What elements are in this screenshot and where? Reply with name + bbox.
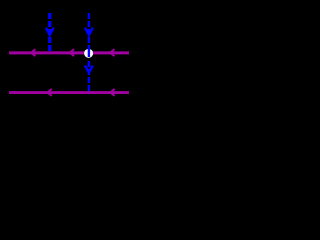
- wire: blue dash crossing the white node: [88, 45, 90, 57]
- node: white circle bus node: [84, 49, 93, 58]
- wire: blue dashed feeder (upper segment) at x=88.9: [88, 13, 90, 43]
- arrow on upper bus (right): [110, 49, 114, 56]
- arrow on upper bus (left): [31, 49, 35, 56]
- wire: upper purple bus line: [9, 51, 129, 54]
- arrow on left feeder: [46, 28, 54, 35]
- arrow on upper bus (middle): [70, 49, 74, 56]
- wire: blue dashed feeder (lower segment) at x=88.9: [88, 61, 90, 91]
- arrow on right feeder (upper): [85, 28, 93, 35]
- arrow on lower bus (left): [48, 89, 52, 96]
- background: [0, 0, 135, 109]
- wire: lower purple bus line: [9, 91, 129, 94]
- arrow on lower bus (right): [110, 89, 114, 96]
- arrow on right feeder (lower): [85, 66, 93, 73]
- wire: blue dashed feeder at x=49.7: [48, 13, 51, 51]
